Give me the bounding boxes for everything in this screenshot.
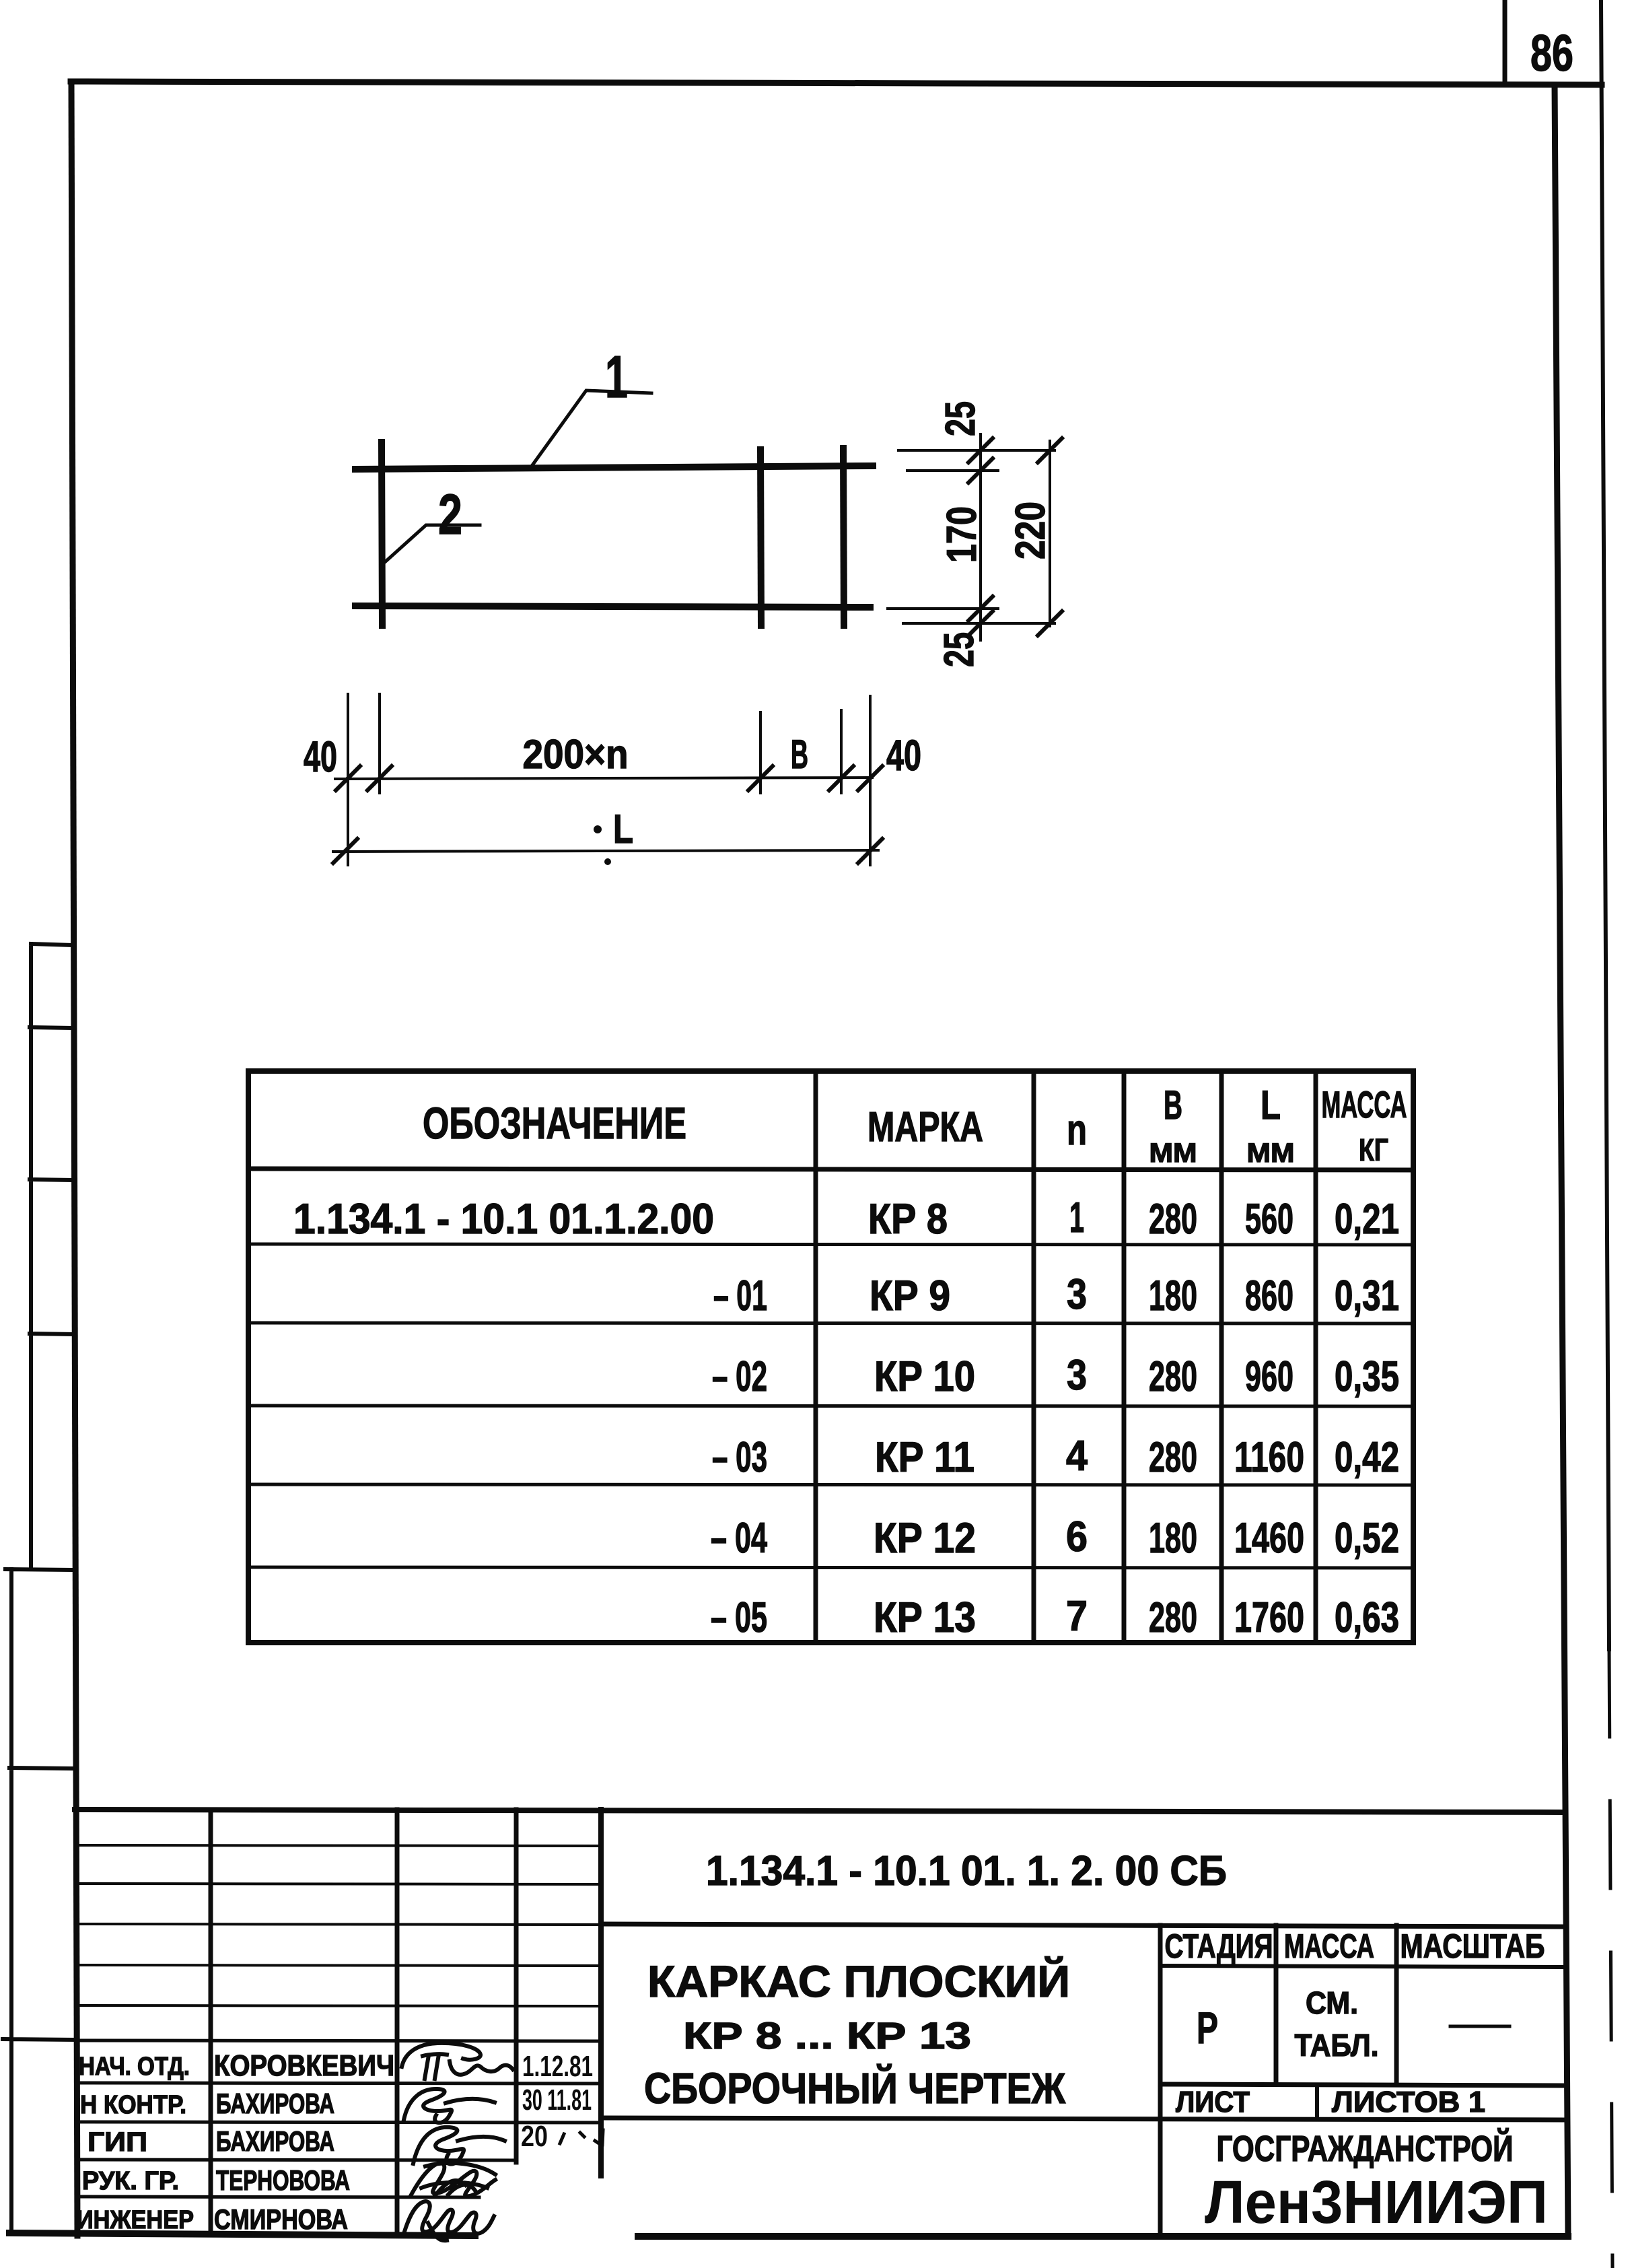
svg-text:1460: 1460 [1234,1515,1304,1562]
svg-text:1: 1 [605,343,628,410]
svg-text:1760: 1760 [1234,1594,1304,1641]
svg-text:СТАДИЯ: СТАДИЯ [1165,1927,1273,1965]
signature table column 767 [514,1810,519,2162]
svg-text:КР 9: КР 9 [870,1272,950,1319]
svg-text:4: 4 [1066,1433,1088,1480]
extension line bar1 [907,469,998,472]
signature 5 smirnova [404,2201,494,2240]
sheet top border [71,81,1602,85]
svg-text:ГОСГРАЖДАНСТРОЙ: ГОСГРАЖДАНСТРОЙ [1217,2128,1514,2169]
left margin upper boxes [30,944,74,1569]
leader line for label 2 [386,525,480,561]
signature table column 313 [209,1810,213,2235]
svg-text:0,21: 0,21 [1335,1196,1399,1243]
dimension line L [333,850,878,852]
stadia column line 1896 [1274,1925,1279,2084]
extension line bottom [903,622,1055,625]
dimension line 40/200xn/B/40 [335,778,872,779]
svg-text:30 11.81: 30 11.81 [522,2084,592,2117]
svg-text:МАСШТАБ: МАСШТАБ [1401,1927,1545,1965]
svg-text:МАССА: МАССА [1284,1927,1374,1965]
massa column line 2075 [1394,1925,1399,2084]
list column divider [1315,2085,1319,2119]
signature row line e [76,2005,601,2006]
svg-text:МАРКА: МАРКА [867,1104,983,1150]
svg-text:L: L [1261,1083,1281,1128]
leader line for label 1 [532,390,651,465]
svg-text:280: 280 [1149,1594,1197,1641]
svg-text:0,31: 0,31 [1335,1272,1399,1319]
signature row line j [76,2197,479,2197]
svg-text:280: 280 [1149,1434,1197,1481]
right cross bar a [760,450,761,625]
ink speck below L line [604,858,611,865]
signature 3 bahirova [413,2127,505,2164]
svg-text:0,42: 0,42 [1335,1434,1399,1481]
table column line 1955 [1314,1071,1318,1643]
svg-text:2: 2 [438,483,462,546]
svg-text:3: 3 [1067,1352,1087,1399]
signature row line a [76,1845,601,1846]
table outer frame [248,1071,1413,1643]
svg-text:БАХИРОВА: БАХИРОВА [216,2088,334,2119]
extension line x1250 [840,710,843,793]
svg-text:ГИП: ГИП [87,2127,147,2157]
sheet outer right edge dashed [1609,1649,1613,2268]
left margin lower boxes [3,1569,75,2234]
ink dot before L [594,825,602,833]
tick marks vertical dims [968,438,1062,635]
svg-text:КР 8: КР 8 [868,1196,948,1243]
svg-text:1: 1 [1069,1194,1084,1241]
bottom longitudinal bar [355,606,870,607]
table header bottom line [248,1169,1413,1170]
list row top line [1160,2084,1563,2086]
extension line x564 [378,694,381,793]
table row line 3 [248,1323,1413,1324]
signature 2 bahirova [404,2089,495,2123]
svg-text:СМИРНОВА: СМИРНОВА [214,2203,348,2235]
svg-text:200×n: 200×n [523,732,629,777]
signature table column 893 [598,1810,604,2176]
svg-text:1.134.1 - 10.1 01.1.2.00: 1.134.1 - 10.1 01.1.2.00 [293,1196,714,1243]
svg-text:180: 180 [1149,1272,1197,1319]
svg-text:НАЧ. ОТД.: НАЧ. ОТД. [79,2053,190,2081]
signature row line i [76,2160,515,2160]
signature 1 korovkevich [402,2043,513,2079]
svg-text:25: 25 [937,401,984,436]
table column line 1815 [1219,1071,1224,1643]
svg-text:ЛИСТОВ 1: ЛИСТОВ 1 [1332,2086,1485,2119]
svg-text:0,52: 0,52 [1335,1515,1399,1562]
table row line 4 [248,1406,1413,1406]
date 3 specks [560,2130,603,2145]
svg-text:СБОРОЧНЫЙ ЧЕРТЕЖ: СБОРОЧНЫЙ ЧЕРТЕЖ [644,2063,1066,2112]
svg-text:280: 280 [1149,1353,1197,1400]
svg-text:180: 180 [1149,1515,1197,1562]
dimension line 220 [1049,441,1051,626]
svg-text:960: 960 [1245,1353,1294,1400]
svg-text:0,35: 0,35 [1335,1353,1399,1400]
page number box left line [1503,0,1508,83]
svg-text:– 04: – 04 [711,1515,767,1562]
table column line 1536 [1032,1071,1036,1643]
sheet left border [71,81,77,2236]
svg-text:170: 170 [939,506,985,563]
title block top line [75,1810,1563,1812]
svg-text:20: 20 [521,2120,548,2153]
svg-text:СМ.: СМ. [1306,1985,1358,2020]
name cell bottom line [601,2118,1563,2120]
svg-text:БАХИРОВА: БАХИРОВА [216,2125,334,2157]
vertical dimension group [888,434,1055,640]
designation cell bottom line [601,1924,1563,1927]
sheet outer right edge solid [1601,0,1609,1649]
dimension line 170/25 [979,434,982,640]
svg-text:n: n [1067,1105,1087,1154]
svg-text:ИНЖЕНЕР: ИНЖЕНЕР [77,2206,194,2234]
name cell right line 1724 [1158,1925,1163,2235]
table row line 5 [248,1484,1413,1485]
svg-text:1.134.1 - 10.1 01. 1. 2. 00 С: 1.134.1 - 10.1 01. 1. 2. 00 СБ [706,1848,1227,1894]
svg-text:– 05: – 05 [711,1594,767,1641]
signature table column 590 [395,1810,400,2235]
svg-text:ЛИСТ: ЛИСТ [1176,2086,1250,2119]
svg-text:Р: Р [1197,2003,1218,2053]
svg-text:ТАБЛ.: ТАБЛ. [1295,2028,1379,2063]
svg-text:ОБОЗНАЧЕНИЕ: ОБОЗНАЧЕНИЕ [423,1098,686,1148]
svg-text:86: 86 [1530,25,1573,82]
horizontal dimension group [333,694,878,865]
svg-text:– 01: – 01 [713,1272,767,1319]
svg-text:7: 7 [1066,1593,1088,1640]
svg-text:КР 13: КР 13 [874,1594,976,1641]
svg-text:Н КОНТР.: Н КОНТР. [80,2091,186,2119]
svg-text:КР 10: КР 10 [874,1353,975,1400]
extension line bar2 [888,607,998,610]
svg-text:280: 280 [1149,1196,1197,1243]
svg-text:6: 6 [1066,1513,1088,1560]
signature row line h [76,2122,601,2123]
sheet bottom border [9,2233,1568,2236]
signature row line d [76,1965,601,1966]
svg-text:L: L [613,806,633,852]
svg-text:40: 40 [886,731,921,780]
table row line 6 [248,1567,1413,1568]
top longitudinal bar 1 [355,466,873,469]
extension line x1293 [869,696,872,865]
svg-text:– 02: – 02 [712,1353,767,1400]
svg-text:КР 12: КР 12 [874,1515,976,1562]
svg-text:220: 220 [1007,502,1054,559]
right cross bar b [843,448,844,625]
svg-text:0,63: 0,63 [1335,1594,1399,1641]
svg-text:КГ: КГ [1359,1132,1388,1167]
svg-text:ТЕРНОВОВА: ТЕРНОВОВА [216,2164,350,2196]
table row line 2 [248,1244,1413,1245]
svg-text:КР 11: КР 11 [875,1434,975,1481]
table column line 1670 [1122,1071,1127,1643]
signature row line g [76,2083,601,2084]
svg-text:B: B [791,732,808,777]
masshtab dash [1450,2025,1510,2028]
left cross bar 2 [382,442,382,625]
svg-text:ММ: ММ [1247,1138,1295,1168]
svg-text:3: 3 [1067,1271,1087,1318]
svg-text:40: 40 [304,732,337,781]
svg-text:КОРОВКЕВИЧ: КОРОВКЕВИЧ [214,2049,394,2082]
svg-text:B: B [1164,1083,1182,1128]
sheet right inner border [1555,85,1568,2236]
signature 4 ternovova [411,2163,495,2196]
svg-text:МАССА: МАССА [1322,1083,1407,1126]
extension line top [898,449,1055,452]
svg-text:860: 860 [1245,1272,1294,1319]
svg-text:1160: 1160 [1234,1434,1304,1481]
svg-text:1.12.81: 1.12.81 [522,2050,593,2083]
table column line 1212 [814,1071,818,1643]
svg-text:ММ: ММ [1149,1138,1197,1168]
extension line x517 [347,694,349,865]
svg-text:КАРКАС ПЛОСКИЙ: КАРКАС ПЛОСКИЙ [647,1956,1070,2006]
signature row line b [76,1884,601,1884]
svg-text:Лен3НИИЭП: Лен3НИИЭП [1205,2169,1548,2236]
svg-text:– 03: – 03 [712,1434,767,1481]
svg-text:РУК. ГР.: РУК. ГР. [82,2167,179,2195]
extension line x1130 [759,712,762,793]
svg-text:560: 560 [1245,1196,1294,1243]
svg-text:КР 8 ... КР 13: КР 8 ... КР 13 [683,2014,971,2057]
stadia header bottom [1160,1966,1563,1967]
signature row line f [76,2040,601,2041]
signature row line c [76,1924,601,1925]
svg-text:25: 25 [936,632,983,667]
tick marks horizontal dims [333,766,882,863]
